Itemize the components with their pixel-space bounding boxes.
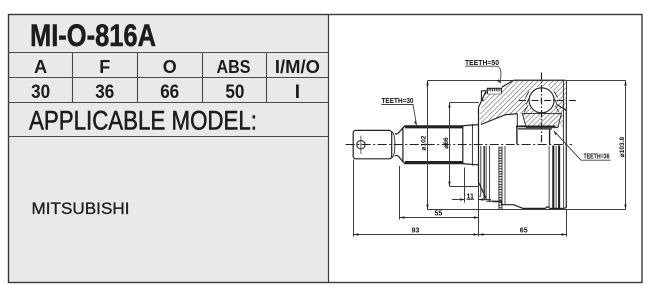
flare vertical 1 [471, 124, 473, 166]
svg-text:93: 93 [412, 228, 420, 235]
dim vline d66 [449, 103, 451, 187]
svg-text:I/M/O: I/M/O [275, 57, 320, 77]
stub hole [357, 141, 365, 149]
track arc over ball [527, 92, 557, 104]
arrow d66 top [448, 103, 450, 108]
svg-text:66: 66 [160, 82, 179, 103]
table row lines [9, 52, 329, 54]
svg-text:A: A [34, 57, 47, 77]
cone pair emphasis [483, 146, 485, 200]
cage right edge [554, 92, 559, 113]
svg-text:ABS: ABS [217, 57, 251, 77]
ext line spline left [399, 166, 401, 220]
spline tooth line top [405, 126, 463, 128]
table panel fill [9, 15, 329, 283]
dim line 11 [452, 199, 491, 201]
table column lines [72, 53, 74, 103]
arrows [354, 79, 627, 236]
dim bottom horizontal [428, 209, 626, 211]
bell right edge bottom round [563, 207, 566, 209]
spline section [403, 126, 463, 164]
bell top edge [514, 80, 566, 207]
svg-text:APPLICABLE MODEL:: APPLICABLE MODEL: [29, 105, 257, 135]
rim inner vertical [562, 81, 564, 145]
svg-text:MI-O-816A: MI-O-816A [30, 17, 156, 53]
stub end arcs [392, 132, 395, 158]
arrow teeth50 [497, 79, 501, 83]
svg-text:⌀103.8: ⌀103.8 [619, 136, 626, 157]
svg-text:TEETH=30: TEETH=30 [382, 96, 414, 105]
leader lines [382, 66, 611, 160]
svg-text:O: O [163, 57, 177, 77]
track white gap [527, 88, 555, 106]
stub hole tick [360, 136, 362, 154]
bell cavity top edge [481, 114, 518, 125]
arrow d103 top [624, 81, 626, 86]
arrow 55 right [474, 216, 479, 218]
dim line 93 65 [354, 234, 567, 236]
exterior: abs toothed band [499, 147, 502, 210]
race bottom thick edge [516, 125, 556, 127]
arrow 11 left [460, 198, 465, 200]
arrow 11 right [479, 198, 484, 200]
inner race hatched [522, 113, 561, 127]
exterior: ring outer surface bottom [488, 201, 502, 205]
exterior: lower cone ring edges [478, 146, 498, 202]
spline tooth line bottom [405, 161, 463, 163]
leader teeth30 [382, 105, 417, 126]
dim top horizontal [428, 80, 626, 82]
svg-text:F: F [99, 57, 110, 77]
bell wall hatched [479, 81, 566, 124]
exterior: clamp bands [553, 146, 559, 209]
cage left edge [524, 92, 529, 113]
track shoulder vertical [516, 114, 518, 127]
cage block hatched [517, 89, 565, 113]
arrow 93 left [354, 233, 359, 235]
arrow 93/65 mid right [479, 233, 484, 235]
rim corner hatched [548, 85, 566, 109]
exterior: snap ring notch [546, 207, 550, 208]
centerline [346, 144, 572, 146]
bore left wall [516, 126, 518, 144]
svg-text:65: 65 [520, 228, 528, 235]
ext line 11 left [464, 168, 466, 203]
svg-text:⌀66: ⌀66 [443, 137, 450, 149]
arrow d66 bottom [448, 182, 450, 187]
bell dome slant top [502, 80, 514, 87]
arrow 55 left [400, 216, 405, 218]
table divider vertical [328, 15, 330, 283]
svg-text:36: 36 [95, 82, 114, 103]
boot flare top [463, 125, 479, 126]
svg-text:TEETH=36: TEETH=36 [584, 152, 610, 161]
abs ring section top [487, 88, 501, 94]
svg-text:MITSUBISHI: MITSUBISHI [32, 200, 130, 218]
leader teeth50 [465, 66, 501, 83]
abs band teeth [499, 148, 502, 208]
drawing small texts [382, 58, 626, 235]
dim vline d102 [427, 81, 429, 210]
dim hline d66 bottom [450, 186, 479, 188]
abs ring flange block [481, 91, 486, 101]
shaft stub [353, 130, 392, 158]
dim line 55 [400, 217, 479, 219]
svg-text:11: 11 [467, 193, 475, 200]
rim inner slant [557, 105, 567, 111]
arrow d103 bottom [624, 205, 626, 210]
exterior: barrel bottom to bands [550, 207, 564, 209]
ball vertical centerline [541, 73, 543, 145]
arrow d102 bottom [426, 205, 428, 210]
ball horizontal centerline [519, 100, 577, 102]
svg-text:TEETH=50: TEETH=50 [465, 58, 499, 67]
neck top [395, 128, 403, 134]
ext line bell left [478, 187, 480, 237]
ext line bell right [566, 210, 568, 237]
rim lower wedge hatched [554, 107, 563, 130]
svg-text:50: 50 [225, 82, 244, 103]
abs ring teeth ticks [489, 88, 500, 91]
exterior: faint line after ring [504, 146, 506, 205]
bore right wall [549, 129, 551, 145]
bell back cone top [479, 91, 487, 108]
svg-text:30: 30 [31, 82, 50, 103]
cage rail line [518, 128, 552, 130]
flare vertical 2 / bell back edge [478, 107, 480, 182]
svg-text:⌀102: ⌀102 [421, 135, 428, 150]
exterior: groove base and slant [502, 205, 546, 209]
arrow 93/65 mid left [474, 233, 479, 235]
neck bottom [395, 155, 403, 161]
arrow 65 right [562, 233, 567, 235]
svg-text:55: 55 [435, 211, 443, 218]
bell back cone bottom [479, 182, 487, 199]
arrow teeth36 [554, 131, 558, 135]
svg-text:I: I [295, 82, 300, 103]
boot flare bottom [463, 164, 479, 167]
dim vline d103.8 [625, 81, 627, 210]
arrow d102 top [426, 81, 428, 86]
ball [529, 88, 554, 113]
dim hline d66 top [450, 102, 479, 104]
ext line stub left [353, 160, 355, 237]
arrow teeth30 [414, 121, 417, 126]
leader teeth36 [554, 131, 611, 160]
